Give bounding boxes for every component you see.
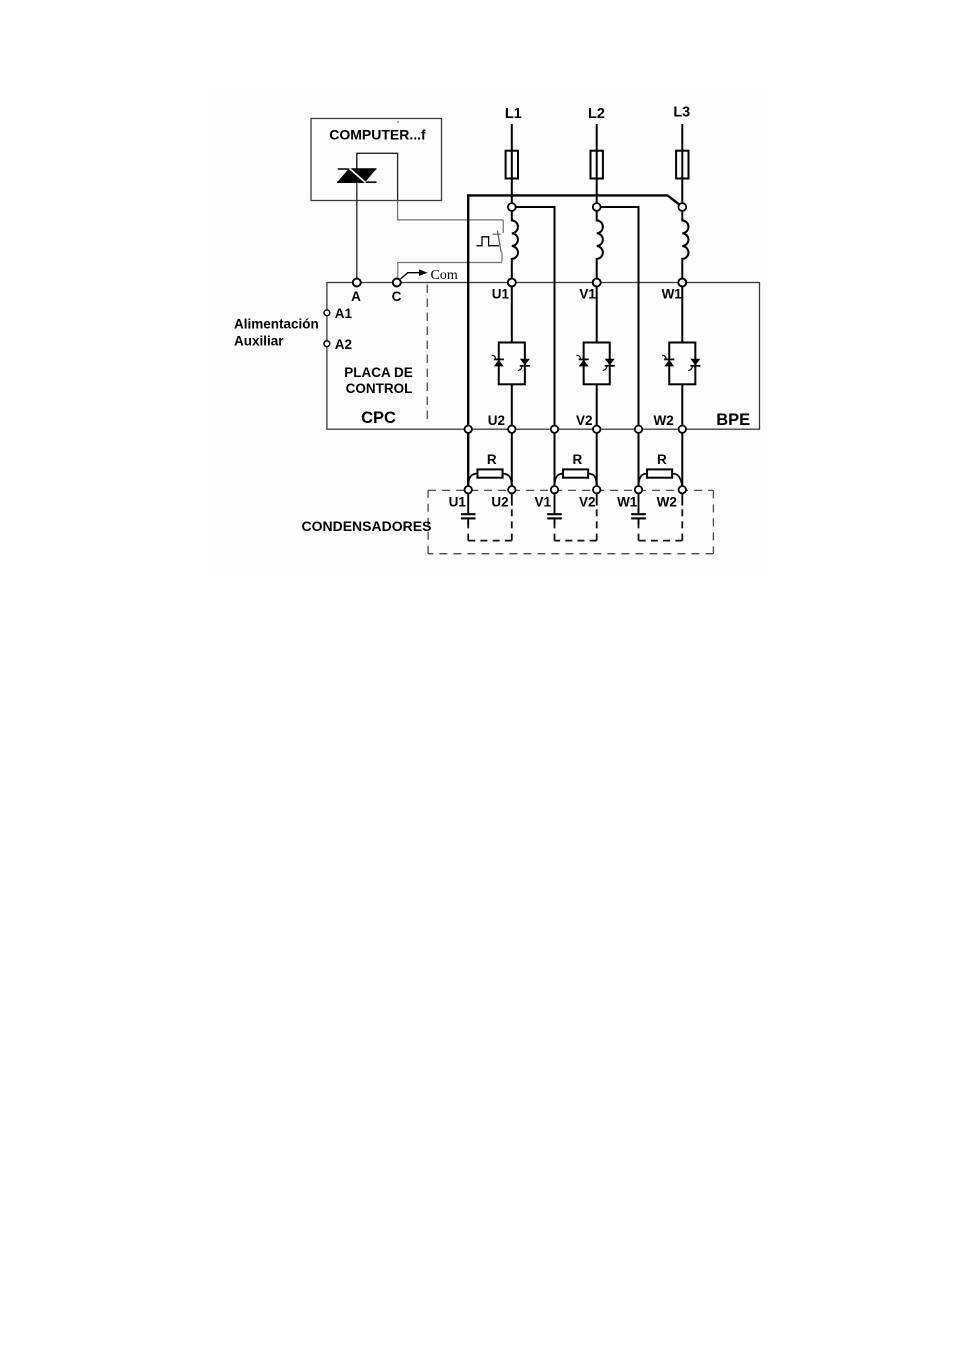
label V1 xyxy=(579,287,596,302)
wire triac gate loop xyxy=(357,153,398,200)
thyristor block Q3 xyxy=(662,343,700,385)
wire thyristor to V2 xyxy=(596,384,598,486)
svg-text:V2: V2 xyxy=(576,413,593,428)
thyristor block Q2 xyxy=(577,343,615,385)
gate coupling wire upper (gray) xyxy=(398,201,504,220)
wire V1 to thyristor xyxy=(596,286,598,342)
wire L3 supply xyxy=(681,124,683,203)
label L3 xyxy=(673,105,690,121)
node C xyxy=(393,279,401,287)
control board box CPC/BPE xyxy=(327,283,760,430)
svg-text:PLACA DE: PLACA DE xyxy=(344,365,413,380)
svg-text:W2: W2 xyxy=(657,495,677,510)
node V1 xyxy=(593,279,601,287)
node L2 xyxy=(593,203,601,211)
svg-text:A2: A2 xyxy=(335,337,352,352)
triac symbol xyxy=(337,168,376,182)
capacitor C2 xyxy=(547,493,562,524)
gate contact lower stem xyxy=(501,252,503,261)
terminal A2 xyxy=(324,341,330,347)
inductor phase 3 xyxy=(682,210,688,278)
label Auxiliar xyxy=(234,333,284,348)
svg-text:U1: U1 xyxy=(492,287,510,302)
wire triac main vertical to node A xyxy=(356,153,358,278)
node L1 xyxy=(508,203,516,211)
wire L1 bypass to V1 feeder xyxy=(512,207,555,486)
stray scan dot xyxy=(397,121,399,123)
svg-text:W1: W1 xyxy=(662,287,683,302)
node box-bottom U2 xyxy=(508,426,515,433)
label cap V2 xyxy=(579,495,596,510)
svg-text:BPE: BPE xyxy=(716,411,750,429)
label A2 xyxy=(335,337,352,352)
wire L2 supply xyxy=(596,124,598,203)
svg-text:W2: W2 xyxy=(653,413,673,428)
inductor phase 2 xyxy=(597,210,603,278)
label Alimentacion xyxy=(234,317,319,332)
label R phase2 xyxy=(573,452,583,467)
fuse F3 xyxy=(676,151,688,179)
node box-bottom V2 xyxy=(593,426,600,433)
label cap W1 xyxy=(617,495,638,510)
gate coupling wire lower (gray) xyxy=(398,263,502,279)
gate contact cross bar xyxy=(493,233,501,235)
terminal A1 xyxy=(324,310,330,316)
dashed link C1 to U2 xyxy=(468,493,512,540)
label V2 (box edge) xyxy=(576,413,593,428)
node box-bottom feeder W1 xyxy=(635,426,642,433)
svg-text:U2: U2 xyxy=(491,495,508,510)
node L3 xyxy=(678,203,686,211)
label L2 xyxy=(588,106,605,122)
svg-text:R: R xyxy=(573,452,583,467)
label A xyxy=(351,289,361,304)
gate contact lever xyxy=(497,231,501,253)
svg-text:U1: U1 xyxy=(449,495,467,510)
svg-text:R: R xyxy=(657,452,667,467)
svg-text:Alimentación: Alimentación xyxy=(234,317,319,332)
node cap V2 xyxy=(593,486,600,493)
svg-text:A1: A1 xyxy=(335,306,353,321)
capacitor bank outer dashed box xyxy=(428,490,713,553)
label cap W2 xyxy=(657,495,677,510)
svg-text:COMPUTER...f: COMPUTER...f xyxy=(329,127,426,143)
svg-text:C: C xyxy=(392,289,402,304)
label BPE xyxy=(716,411,750,429)
node box-bottom feeder U1 xyxy=(465,426,472,433)
label cap U1 xyxy=(449,495,467,510)
dashed link C2 to V2 xyxy=(555,493,597,540)
svg-text:L1: L1 xyxy=(505,106,522,122)
wire W1 to thyristor xyxy=(681,286,683,342)
node cap W2 xyxy=(679,486,686,493)
thyristor block Q1 xyxy=(492,343,530,385)
inductor phase 1 xyxy=(512,210,518,278)
svg-text:L2: L2 xyxy=(588,106,605,122)
svg-text:V1: V1 xyxy=(535,495,552,510)
label PLACA DE xyxy=(344,365,413,380)
resistor R3 xyxy=(639,469,683,486)
fuse F2 xyxy=(591,151,603,179)
thick wire L3 node to U1 feeder xyxy=(468,195,682,486)
label A1 xyxy=(335,306,353,321)
label Com xyxy=(431,268,458,283)
capacitor C1 xyxy=(461,493,476,524)
wire L2 bypass to W1 feeder xyxy=(597,207,639,486)
svg-text:L3: L3 xyxy=(673,105,690,121)
label R phase1 xyxy=(487,452,497,467)
svg-text:CPC: CPC xyxy=(361,409,396,427)
node cap V1 xyxy=(551,486,558,493)
label U2 (box edge) xyxy=(488,413,505,428)
svg-text:U2: U2 xyxy=(488,413,505,428)
Com arrow xyxy=(401,269,428,279)
capacitor C3 xyxy=(631,493,646,524)
label W2 (box edge) xyxy=(653,413,673,428)
label W1 xyxy=(662,287,683,302)
resistor R1 xyxy=(468,469,512,486)
label cap V1 xyxy=(535,495,552,510)
label CONTROL xyxy=(346,381,413,396)
label cap U2 xyxy=(491,495,508,510)
wire thyristor to U2 xyxy=(511,384,513,486)
dashed link C3 to W2 xyxy=(639,493,683,540)
svg-text:R: R xyxy=(487,452,497,467)
scan background region xyxy=(209,94,769,571)
computer box xyxy=(311,119,442,201)
wire L1 supply xyxy=(511,124,513,203)
resistor R2 xyxy=(555,469,597,486)
label L1 xyxy=(505,106,522,122)
svg-text:CONDENSADORES: CONDENSADORES xyxy=(302,518,432,534)
label CPC xyxy=(361,409,396,427)
pulse symbol xyxy=(477,237,499,246)
node U1 xyxy=(508,279,516,287)
dashed separator CPC|BPE xyxy=(426,285,428,424)
node box-bottom feeder V1 xyxy=(551,426,558,433)
svg-text:V1: V1 xyxy=(579,287,596,302)
label U1 xyxy=(492,287,510,302)
wire U1 to thyristor xyxy=(511,286,513,342)
svg-text:W1: W1 xyxy=(617,495,638,510)
svg-text:Auxiliar: Auxiliar xyxy=(234,333,284,348)
node cap U2 xyxy=(508,486,515,493)
label R phase3 xyxy=(657,452,667,467)
fuse F1 xyxy=(506,151,518,179)
node cap U1 xyxy=(465,486,472,493)
label CONDENSADORES xyxy=(302,518,432,534)
svg-text:CONTROL: CONTROL xyxy=(346,381,413,396)
label COMPUTER...f xyxy=(329,127,426,143)
gate contact stem (gray) xyxy=(502,220,504,233)
node cap W1 xyxy=(635,486,642,493)
label C xyxy=(392,289,402,304)
node A xyxy=(353,279,361,287)
node box-bottom W2 xyxy=(679,426,686,433)
svg-text:Com: Com xyxy=(431,268,458,283)
wire thyristor to W2 xyxy=(681,384,683,486)
svg-text:V2: V2 xyxy=(579,495,596,510)
svg-text:A: A xyxy=(351,289,361,304)
node W1 xyxy=(678,279,686,287)
